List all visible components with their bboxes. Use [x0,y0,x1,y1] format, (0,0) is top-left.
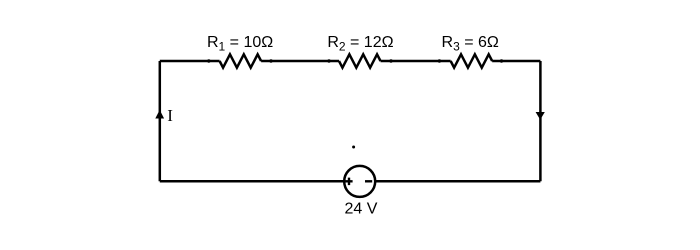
voltage source V1 circle [344,166,375,197]
svg-text:R2 = 12Ω: R2 = 12Ω [327,34,393,53]
wire bottom-right segment [375,180,540,183]
current arrow up on left wire [155,110,164,119]
node dot left of R1 [207,59,210,62]
wire left vertical [159,61,162,181]
wire between R1 and R2 [261,60,339,63]
svg-text:R3 = 6Ω: R3 = 6Ω [442,34,499,53]
wire right vertical [539,61,542,181]
current arrow down on right wire [536,112,545,120]
node dot left of R2 [327,59,330,62]
resistor R2 [339,54,381,67]
wire bottom-left segment [160,180,344,183]
wire top-left segment [160,60,220,63]
svg-text:I: I [167,106,173,125]
node dot left of R3 [438,59,441,62]
svg-text:24 V: 24 V [345,201,378,218]
plus terminal mark [345,178,352,186]
node dot right of R2 [389,59,392,62]
wire top-right segment [492,60,540,63]
node dot right of R1 [269,59,272,62]
resistor R1 [220,54,262,67]
svg-text:R1 = 10Ω: R1 = 10Ω [207,34,273,53]
minus terminal mark [365,180,372,182]
stray dot above source [352,146,355,149]
wire between R2 and R3 [381,60,451,63]
resistor R3 [451,54,493,67]
node dot right of R3 [500,59,503,62]
